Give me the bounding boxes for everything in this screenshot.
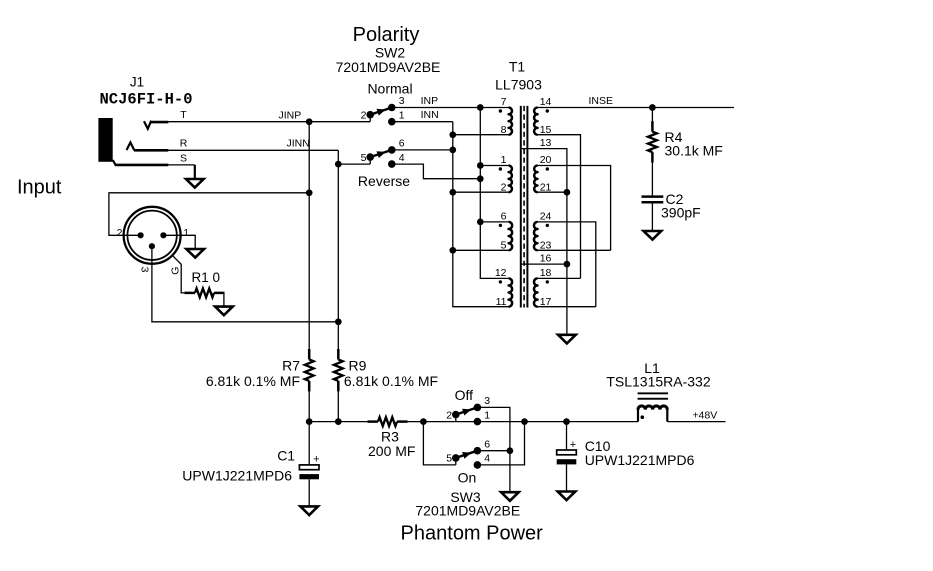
wire T1 pin 6 lead bbox=[480, 221, 508, 223]
svg-text:4: 4 bbox=[484, 453, 490, 465]
svg-text:T: T bbox=[180, 109, 187, 121]
svg-text:6: 6 bbox=[501, 210, 507, 222]
wire SW2 pin 3 to T1 pin 7 (net INP) bbox=[392, 107, 509, 109]
wire SW2 pin 5 to JINN bus bbox=[338, 163, 370, 165]
svg-text:18: 18 bbox=[540, 267, 552, 279]
svg-text:390pF: 390pF bbox=[661, 204, 701, 220]
junction SW3 ground bus / pin 6 wire bbox=[507, 447, 514, 454]
T1 phase dot winding 1 bbox=[499, 167, 502, 170]
wire S to ground bbox=[168, 164, 195, 166]
svg-text:2: 2 bbox=[501, 181, 507, 193]
wire R7 to summing node bbox=[308, 390, 310, 422]
wire SW3 pin5 branch bbox=[423, 422, 455, 465]
T1 phase dot winding 24 bbox=[546, 224, 549, 227]
junction ground bus / T1 pin 16 lead bbox=[564, 261, 571, 268]
svg-text:+: + bbox=[313, 454, 319, 466]
XLR pin 2 contact bbox=[138, 232, 144, 238]
ground at C2 bbox=[644, 231, 662, 240]
wire L1 to +48V bbox=[667, 421, 725, 423]
wire T1 pin 18 lead bbox=[538, 277, 581, 279]
junction INP bus / T1 pin 1 lead bbox=[477, 162, 484, 169]
junction INP bus / SW2 pin 4 wire bbox=[477, 175, 484, 182]
T1 left winding pins 6-5 bbox=[509, 222, 513, 250]
svg-text:6.81k 0.1% MF: 6.81k 0.1% MF bbox=[206, 373, 300, 389]
svg-text:3: 3 bbox=[139, 267, 151, 273]
junction XLR pin3 / JINN bus bbox=[335, 318, 342, 325]
svg-text:J1: J1 bbox=[130, 75, 144, 90]
svg-text:3: 3 bbox=[399, 95, 405, 107]
svg-text:14: 14 bbox=[540, 96, 552, 108]
svg-text:INN: INN bbox=[421, 109, 439, 121]
wire JINN bus down to R9 bbox=[337, 150, 339, 350]
wire T1 pin 1 lead bbox=[480, 165, 508, 167]
svg-text:R: R bbox=[180, 138, 188, 150]
junction JINP wire / bus bbox=[306, 118, 313, 125]
wire T1 pin 14 to R4 node (net INSE) bbox=[538, 107, 734, 109]
wire SW2 pin 6 to INN bus bbox=[392, 149, 453, 151]
svg-text:NCJ6FI-H-0: NCJ6FI-H-0 bbox=[100, 91, 193, 109]
svg-text:C1: C1 bbox=[277, 447, 295, 463]
wire T1 pin 8 lead to INN bus bbox=[453, 134, 509, 136]
svg-text:12: 12 bbox=[495, 267, 507, 279]
resistor R3 bbox=[368, 420, 379, 423]
T1 right winding pins 20-21 bbox=[534, 166, 537, 193]
wire SW3 pin 3 to ground bbox=[477, 407, 510, 492]
T1 left winding pins 12-11 bbox=[509, 278, 513, 306]
T1 phase dot winding 6 bbox=[499, 224, 502, 227]
resistor R7 bbox=[308, 349, 311, 360]
T1 phase dot winding 7 bbox=[499, 109, 502, 112]
svg-text:Input: Input bbox=[17, 177, 62, 199]
svg-text:S: S bbox=[180, 152, 187, 164]
switch SW2 pole 2 (pins 5-6-4) bbox=[369, 157, 371, 164]
svg-text:6: 6 bbox=[484, 438, 490, 450]
svg-text:Phantom Power: Phantom Power bbox=[401, 522, 544, 544]
wire rail to C10 and L1 bbox=[423, 421, 638, 423]
T1 phase dot winding 20 bbox=[546, 167, 549, 170]
resistor R9 bbox=[337, 349, 340, 360]
svg-text:6: 6 bbox=[399, 138, 405, 150]
junction INP bus / T1 pin 6 lead bbox=[477, 219, 484, 226]
capacitor C10 bbox=[557, 450, 577, 455]
wire R9 to summing node bbox=[337, 390, 339, 422]
wire XLR pin 3 to JINN bus bbox=[152, 246, 338, 322]
connector J1 jack body bbox=[98, 118, 112, 162]
ground at SW3 bbox=[501, 492, 519, 501]
wire INP bus down to T1 pin 12 bbox=[480, 108, 508, 279]
svg-text:2: 2 bbox=[446, 409, 452, 421]
wire R to JINN bus (net JINN) bbox=[168, 149, 338, 151]
T1 phase dot winding 18 bbox=[546, 280, 549, 283]
junction R3 / SW3 branch bbox=[420, 418, 427, 425]
T1 right winding pins 24-23 bbox=[534, 222, 538, 250]
svg-text:UPW1J221MPD6: UPW1J221MPD6 bbox=[182, 468, 292, 484]
junction INP / left bus bbox=[477, 104, 484, 111]
T1 right winding pins 18-17 bbox=[534, 278, 538, 306]
svg-text:On: On bbox=[458, 469, 477, 485]
svg-text:15: 15 bbox=[540, 124, 552, 136]
svg-text:5: 5 bbox=[501, 239, 507, 251]
wire SW3 pin 4 to output rail bbox=[477, 422, 524, 465]
junction INN bus / SW2 pin 6 wire bbox=[449, 147, 456, 154]
ground at R1 bbox=[215, 307, 233, 316]
junction rail / SW3 pin 4 riser bbox=[521, 418, 528, 425]
wire XLR ground lug G to R1 bbox=[173, 256, 188, 293]
connector J1 ring contact R bbox=[127, 142, 135, 150]
inductor L1 winding bbox=[637, 409, 639, 422]
svg-text:INP: INP bbox=[421, 95, 439, 107]
ground at jack sleeve bbox=[186, 179, 204, 188]
svg-text:3: 3 bbox=[484, 395, 490, 407]
svg-text:R7: R7 bbox=[282, 358, 300, 374]
XLR pin 3 contact bbox=[149, 243, 155, 249]
switch SW3 pole 2 (pins 5-6-4) bbox=[455, 458, 457, 465]
wire T1 pin 16 to ground bus bbox=[522, 263, 567, 265]
svg-text:JINP: JINP bbox=[279, 109, 302, 121]
wire INN bus down to T1 pin 11 bbox=[453, 122, 509, 307]
wire T1 pin 24 down to pin 17 bbox=[538, 222, 596, 307]
wire XLR pin 1 to ground bbox=[163, 235, 195, 249]
svg-text:7: 7 bbox=[501, 96, 507, 108]
junction ground bus / T1 pin 21 lead bbox=[564, 189, 571, 196]
XLR shell outer circle bbox=[124, 207, 181, 264]
T1 left winding pins 1-2 bbox=[509, 166, 512, 193]
svg-text:2: 2 bbox=[117, 227, 123, 239]
svg-text:1: 1 bbox=[501, 154, 507, 166]
svg-text:Polarity: Polarity bbox=[353, 24, 420, 46]
junction JINP bus / XLR pin2 wire bbox=[306, 189, 313, 196]
wire T1 pin 5 lead to INN bus bbox=[453, 249, 509, 251]
inductor L1 core bars bbox=[638, 392, 668, 394]
wire SW2 pin 1 (net INN) to INN bus bbox=[392, 121, 453, 123]
capacitor C1 bbox=[299, 465, 319, 470]
svg-text:8: 8 bbox=[501, 124, 507, 136]
wire T1 pin 23 lead bbox=[538, 249, 611, 251]
junction INN bus / T1 pin 5 lead bbox=[449, 247, 456, 254]
capacitor C2 bbox=[642, 195, 664, 198]
svg-text:11: 11 bbox=[496, 296, 507, 308]
svg-text:7201MD9AV2BE: 7201MD9AV2BE bbox=[336, 59, 441, 75]
svg-text:TSL1315RA-332: TSL1315RA-332 bbox=[606, 373, 711, 389]
wire C2 to ground bbox=[651, 203, 653, 231]
wire node to C1 bbox=[308, 422, 310, 465]
wire R3 to SW3 node bbox=[406, 421, 423, 423]
svg-text:1: 1 bbox=[183, 227, 189, 239]
svg-text:Reverse: Reverse bbox=[358, 173, 410, 189]
svg-text:+: + bbox=[570, 439, 576, 451]
svg-text:1: 1 bbox=[484, 409, 490, 421]
svg-text:R1 0: R1 0 bbox=[192, 270, 221, 285]
svg-text:30.1k MF: 30.1k MF bbox=[665, 143, 723, 159]
junction rail / C10 bbox=[563, 418, 570, 425]
wire JINP bus down to R7 bbox=[308, 122, 310, 351]
T1 phase dot winding 14 bbox=[546, 109, 549, 112]
svg-text:16: 16 bbox=[540, 253, 552, 265]
ground at C10 bbox=[558, 492, 576, 501]
svg-text:LL7903: LL7903 bbox=[495, 77, 542, 93]
svg-text:23: 23 bbox=[540, 239, 552, 251]
resistor R4 bbox=[651, 121, 654, 132]
switch SW2 pole 1 (pins 2-3-1) bbox=[369, 115, 371, 122]
svg-text:Normal: Normal bbox=[367, 81, 412, 97]
ground at XLR pin 1 bbox=[186, 249, 204, 258]
T1 core right bar bbox=[526, 106, 528, 308]
junction INSE / R4 branch bbox=[649, 104, 656, 111]
T1 core left bar bbox=[520, 106, 522, 308]
connector J1 tip contact T bbox=[144, 121, 151, 129]
junction node / R7 bbox=[306, 418, 313, 425]
resistor R1 bbox=[185, 292, 196, 295]
svg-text:5: 5 bbox=[361, 152, 367, 164]
svg-text:INSE: INSE bbox=[589, 95, 614, 107]
wire C10 to ground bbox=[566, 464, 568, 491]
junction INN bus / T1 pin 8 lead bbox=[449, 131, 456, 138]
T1 core dashed shield bar bbox=[523, 106, 525, 308]
svg-text:JINN: JINN bbox=[287, 138, 310, 150]
svg-text:21: 21 bbox=[540, 181, 552, 193]
svg-text:13: 13 bbox=[540, 137, 552, 149]
svg-text:5: 5 bbox=[446, 453, 452, 465]
svg-text:T1: T1 bbox=[509, 59, 526, 75]
XLR pin 1 contact bbox=[160, 232, 166, 238]
svg-text:7201MD9AV2BE: 7201MD9AV2BE bbox=[415, 502, 520, 518]
junction INN bus / T1 pin 2 lead bbox=[449, 189, 456, 196]
svg-text:+48V: +48V bbox=[692, 409, 717, 421]
switch SW3 pole 1 (pins 2-3-1) bbox=[455, 415, 457, 422]
svg-text:24: 24 bbox=[540, 210, 552, 222]
wire T to SW2 pin 2 (net JINP) bbox=[168, 121, 370, 123]
XLR shell inner circle bbox=[127, 211, 176, 260]
wire SW2 pin 4 to INP bus bbox=[392, 164, 481, 179]
svg-text:G: G bbox=[169, 267, 181, 275]
svg-text:1: 1 bbox=[399, 109, 405, 121]
svg-text:17: 17 bbox=[540, 296, 552, 308]
svg-text:4: 4 bbox=[399, 152, 405, 164]
wire T1 pin 20 down to pin 23 bbox=[538, 166, 611, 251]
svg-text:Off: Off bbox=[455, 387, 474, 403]
wire T1 pin 13 to ground bus bbox=[522, 149, 567, 335]
wire T1 pin 21 lead bbox=[538, 191, 567, 193]
ground at C1 bbox=[300, 506, 318, 515]
wire summing node to R3 bbox=[309, 421, 369, 423]
wire T1 pin 17 lead bbox=[538, 306, 596, 308]
svg-text:20: 20 bbox=[540, 154, 552, 166]
junction node / R9 bbox=[335, 418, 342, 425]
svg-text:200 MF: 200 MF bbox=[368, 443, 415, 459]
wire R1 to ground bbox=[222, 293, 225, 307]
junction JINN bus / SW2 pin5 wire bbox=[335, 161, 342, 168]
wire INSE to R4 bbox=[651, 108, 653, 123]
wire XLR pin 2 to JINP bus bbox=[109, 193, 309, 236]
wire C1 to ground bbox=[308, 479, 310, 506]
T1 phase dot winding 12 bbox=[499, 280, 502, 283]
connector J1 sleeve contact S bbox=[113, 160, 116, 165]
wire rail to C10 bbox=[566, 422, 568, 450]
svg-text:6.81k 0.1% MF: 6.81k 0.1% MF bbox=[344, 373, 438, 389]
wire T1 pin 2 lead to INN bus bbox=[453, 191, 509, 193]
T1 left winding pins 7-8 bbox=[509, 108, 512, 135]
wire SW3 pin 6 bbox=[477, 450, 510, 452]
svg-text:UPW1J221MPD6: UPW1J221MPD6 bbox=[585, 452, 695, 468]
svg-text:R9: R9 bbox=[349, 358, 367, 374]
svg-text:2: 2 bbox=[361, 109, 367, 121]
T1 right winding pins 14-15 bbox=[534, 108, 537, 135]
wire R4 to C2 bbox=[651, 161, 653, 195]
ground below T1 bbox=[558, 335, 576, 344]
wire T1 pin 15 down to pin 18 bbox=[538, 135, 581, 279]
inductor L1 phase dot bbox=[641, 415, 645, 419]
